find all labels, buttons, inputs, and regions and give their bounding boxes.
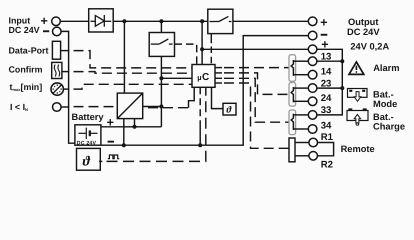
- minus sign battery: [108, 141, 114, 143]
- relay contact K2 capsule: [289, 83, 296, 107]
- wire uC relay3 dashed: [224, 78, 289, 122]
- indicator I<In circle: [53, 103, 62, 112]
- wire remote block to R2: [295, 155, 309, 157]
- wire S1 sense solid to uC: [161, 77, 192, 79]
- node charge stub on battery plus line: [133, 125, 137, 129]
- svg-text:+: +: [41, 14, 48, 28]
- terminal input minus: [53, 27, 62, 36]
- data-port connector icon: [52, 41, 60, 59]
- battery symbol: [79, 128, 98, 139]
- svg-text:DC 24V: DC 24V: [77, 141, 97, 147]
- terminal 34: [308, 125, 317, 134]
- wire K1 to terminal 13: [293, 60, 308, 62]
- node plus branch: [200, 47, 204, 51]
- wire dashed converter line to uC pin: [148, 107, 189, 109]
- converter diagonal: [117, 93, 142, 119]
- wire uC relay2 dashed: [224, 73, 289, 95]
- terminal plus 24V: [308, 45, 317, 54]
- wire converter to minus rail: [123, 119, 125, 146]
- svg-text:DC 24V: DC 24V: [9, 25, 40, 35]
- node top rail x202: [200, 19, 204, 23]
- svg-text:R2: R2: [321, 159, 333, 170]
- node top rail x124: [122, 19, 126, 23]
- wire confirm dashed to uC: [74, 72, 193, 74]
- wire converter charge stub: [134, 119, 136, 127]
- relay contact K1 capsule: [289, 55, 296, 82]
- svg-text:ϑ: ϑ: [83, 155, 91, 170]
- relay contact K3 blade: [291, 114, 293, 130]
- terminal 13: [308, 57, 317, 66]
- wire knob dashed to uC: [74, 84, 193, 89]
- wire top rail to converter: [123, 21, 125, 93]
- svg-text:14: 14: [321, 66, 332, 77]
- terminal 33: [308, 111, 317, 120]
- switch S1 box: [149, 33, 174, 57]
- svg-text:DC 24V: DC 24V: [347, 27, 380, 37]
- battery G1 box: [75, 125, 101, 145]
- wire theta dashed to uC: [99, 160, 102, 162]
- wire 23 to bus: [317, 87, 342, 89]
- svg-text:Input: Input: [9, 15, 31, 25]
- wire input plus to diode: [60, 20, 88, 22]
- wire S2 to output plus terminal: [233, 20, 308, 22]
- terminal R2: [309, 152, 318, 161]
- node top rail x161: [159, 19, 163, 23]
- svg-text:Charge: Charge: [373, 122, 405, 132]
- diode V1 box: [89, 9, 114, 32]
- svg-text:Confirm: Confirm: [9, 64, 43, 74]
- rotary switch t knob icon: [51, 83, 63, 95]
- warning triangle alarm: [349, 62, 364, 75]
- svg-text:R1: R1: [321, 132, 334, 143]
- wire top rail to S1: [160, 21, 162, 32]
- wire battery plus line: [101, 126, 161, 128]
- wire confirm stub: [62, 71, 69, 73]
- wire input minus corner down: [61, 31, 75, 143]
- wire converter right to S1 line: [143, 106, 162, 108]
- svg-text:34: 34: [321, 121, 332, 132]
- wire plus bus right: [317, 49, 342, 115]
- terminal output minus: [308, 31, 317, 40]
- wire uC pin down x200 to minus rail: [199, 87, 201, 127]
- node bus 23: [340, 86, 344, 90]
- wire K2 to terminal 24: [293, 100, 308, 102]
- terminal R1: [309, 138, 318, 147]
- wire I<In dashed to converter: [74, 106, 118, 108]
- converter DC-DC box: [117, 93, 142, 119]
- wire uC relay1 dashed: [224, 67, 289, 69]
- node bus 13: [340, 59, 344, 63]
- wire remote jumper R1-R2: [318, 143, 334, 156]
- wire knob stub: [64, 88, 70, 90]
- battery icon Bat.-Charge: [347, 108, 368, 125]
- node S1 line x161 y78: [159, 76, 163, 80]
- relay contact K3 capsule: [289, 110, 296, 135]
- wire uC pin down x211 to theta2: [212, 87, 224, 108]
- wire S2 control dashed to uC: [210, 34, 212, 44]
- wire plus 24V 0,2A line: [202, 48, 308, 50]
- node S1 line x161 y106: [159, 105, 163, 109]
- wire K3 to terminal 34: [293, 128, 308, 130]
- terminal 23: [308, 84, 317, 93]
- wire uC remote dashed: [224, 83, 289, 148]
- svg-text:Data-Port: Data-Port: [9, 46, 49, 56]
- wire uC power from top rail: [201, 21, 203, 64]
- pulse square wave symbol: [108, 155, 119, 159]
- relay contact K1 blade: [291, 60, 293, 76]
- svg-text:µC: µC: [197, 72, 209, 83]
- wire S1 down to battery plus line: [160, 56, 162, 126]
- confirm button icon: [52, 62, 62, 78]
- svg-text:24: 24: [321, 93, 332, 104]
- diode V1 symbol: [91, 15, 112, 27]
- switch S1 symbol: [151, 39, 173, 44]
- svg-text:Remote: Remote: [341, 144, 375, 154]
- svg-text:Alarm: Alarm: [373, 63, 399, 73]
- node converter minus on rail: [122, 143, 126, 147]
- wire S1 control dashed from uC pin: [175, 44, 197, 64]
- battery icon Bat.-Mode: [348, 89, 368, 102]
- uC microcontroller box: [192, 65, 215, 88]
- wire I<In stub: [61, 106, 69, 108]
- terminal output plus: [308, 17, 317, 26]
- terminal 24: [308, 97, 317, 106]
- svg-text:Battery: Battery: [72, 112, 105, 122]
- relay contact K2 blade: [291, 87, 293, 102]
- minus sign output: [321, 34, 328, 36]
- wire data-port dashed to uC: [74, 51, 193, 68]
- svg-text:Bat.-: Bat.-: [373, 90, 394, 100]
- wire remote block to R1: [295, 142, 309, 144]
- switch S2 box: [208, 9, 233, 33]
- svg-text:+: +: [320, 15, 327, 29]
- svg-text:24V 0,2A: 24V 0,2A: [350, 41, 389, 51]
- remote input block: [289, 138, 295, 162]
- terminal 14: [308, 70, 317, 79]
- wire uC pin down x194: [189, 87, 195, 107]
- svg-text:Output: Output: [348, 17, 378, 27]
- uC right pin stubs: [215, 68, 222, 83]
- wire minus rail bottom: [101, 36, 308, 146]
- temperature sensor theta battery box: [77, 148, 101, 170]
- terminal input plus: [52, 17, 61, 26]
- wire top rail diode to switch S2: [114, 20, 208, 22]
- svg-text:Bat.-: Bat.-: [373, 112, 394, 122]
- minus sign input: [43, 30, 49, 32]
- temperature sensor theta2 box: [223, 103, 236, 115]
- node minus rail x200: [198, 143, 202, 147]
- wire K1 to terminal 14: [293, 74, 308, 76]
- wire K2 to terminal 23: [293, 87, 308, 89]
- wire 13 to bus: [317, 60, 342, 62]
- svg-text:Mode: Mode: [373, 99, 397, 109]
- switch S2 symbol: [210, 16, 232, 21]
- wire K3 to terminal 33: [293, 114, 308, 116]
- wire data-port stub: [61, 50, 70, 52]
